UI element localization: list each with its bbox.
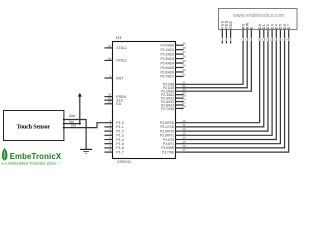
pin P1.3 (4) [104,131,123,137]
pin P1.4 (5) [104,136,123,142]
wire P3.7 to LCD D7 [184,30,289,153]
pin D3 (10) of LCD [269,24,274,42]
svg-text:31: 31 [108,100,112,104]
svg-text:13: 13 [282,38,285,42]
wire touch sensor Out to P1.0 [64,123,105,128]
pin P0.6/AD6 (33) [161,68,187,74]
pin ALE (30) [104,96,123,102]
svg-text:P3.7/RD: P3.7/RD [162,150,175,154]
svg-text:XTAL1: XTAL1 [116,46,127,50]
pin RS (4) of LCD [240,23,245,41]
pin P1.6 (7) [104,144,123,150]
pin P2.3/A11 (24) [161,91,186,97]
svg-text:VEE: VEE [229,21,233,30]
pin P0.7/AD7 (32) [161,73,187,79]
svg-text:RST: RST [116,76,124,80]
svg-text:35: 35 [182,59,186,63]
pin P1.0 (1) [104,119,123,125]
pin P0.2/AD2 (37) [161,50,187,56]
logo EmbeTronicX [0,144,80,167]
svg-text:www.embetronicx.com: www.embetronicx.com [233,13,284,19]
wire P3.3 to LCD D3 [184,30,273,136]
svg-text:Embedded Tutorials Zone: Embedded Tutorials Zone [9,161,57,165]
ground [80,149,92,153]
pin P3.5/T1 (15) [163,140,186,146]
wire P2.1 to LCD RW [184,30,248,88]
pin P3.0/RXD (10) [160,119,186,125]
svg-text:10: 10 [269,38,272,42]
svg-text:28: 28 [182,105,186,109]
svg-text:EmbeTronicX: EmbeTronicX [10,152,62,161]
pin P3.3/INT1 (13) [160,131,186,137]
pin P3.1/TXD (11) [160,123,185,129]
svg-text:Gnd: Gnd [69,114,75,118]
svg-text:P0.7/AD7: P0.7/AD7 [161,75,175,79]
pin PSEN (29) [104,93,126,99]
pin P1.2 (3) [104,127,123,133]
pin P1.1 (2) [104,123,123,129]
pin P3.7/RD (17) [162,148,186,154]
pin P2.6/A14 (27) [161,101,186,107]
pin P3.6/WR (16) [161,144,186,150]
logo leaf icon [2,148,7,160]
pin RW (5) of LCD [244,22,249,41]
wire P3.1 to LCD D1 [184,30,264,127]
pin P0.3/AD3 (36) [161,55,187,61]
LCD module LCD1 [219,9,298,30]
pin VSS (1) of LCD [220,21,225,44]
svg-text:E: E [250,26,254,29]
power VCC arrow [78,93,82,97]
pin P2.4/A12 (25) [161,94,186,100]
pin D2 (9) of LCD [265,24,270,42]
wire touch sensor Vcc to power [64,96,80,123]
wire P3.6 to LCD D6 [184,30,285,148]
pin Vcc of touch sensor [63,120,75,125]
wire P3.5 to LCD D5 [184,30,281,144]
pin VDD (2) of LCD [224,20,229,43]
pin XTAL2 (18) [104,57,127,63]
svg-text:P0.5/AD5: P0.5/AD5 [161,66,175,70]
svg-text:XTAL2: XTAL2 [116,59,127,63]
svg-text:14: 14 [286,38,289,42]
svg-text:33: 33 [182,68,186,72]
pin P3.2/INT0 (12) [160,127,186,133]
svg-text:P0.2/AD2: P0.2/AD2 [161,52,175,56]
svg-text:P1.7: P1.7 [116,150,123,154]
touch sensor module TS1 [4,111,64,141]
pin P0.1/AD1 (38) [161,46,187,52]
pin D0 (7) of LCD [257,24,262,42]
pin D4 (11) of LCD [273,24,278,42]
pin D6 (13) of LCD [282,24,287,42]
svg-text:36: 36 [182,55,186,59]
pin P0.4/AD4 (35) [161,59,187,65]
pin RST (9) [104,74,124,80]
pin P1.5 (6) [104,140,123,146]
pin Out of touch sensor [63,124,76,129]
pin Gnd of touch sensor [63,114,75,120]
pin P2.2/A10 (23) [161,87,186,93]
svg-text:P0.1/AD1: P0.1/AD1 [161,48,175,52]
svg-text:39: 39 [182,41,186,45]
logo dots [2,163,8,165]
pin D7 (14) of LCD [286,24,291,42]
junction Vcc [79,123,81,125]
logo tagline Embedded Tutorials Zone [8,161,62,165]
wire P3.4 to LCD D4 [184,30,277,140]
svg-text:D7: D7 [287,24,291,30]
pin E (6) of LCD [249,26,254,41]
svg-text:EA: EA [116,102,121,106]
wire P2.2 to LCD E [184,30,252,92]
wire P3.0 to LCD D0 [184,30,260,123]
svg-text:18: 18 [108,57,112,61]
pin P2.0/A8 (21) [163,80,186,86]
pin P3.4/T0 (14) [163,136,186,142]
pin D1 (8) of LCD [261,24,266,42]
pin P2.1/A9 (22) [163,84,186,90]
wire P2.0 to LCD RS [184,30,244,85]
svg-text:P0.0/AD0: P0.0/AD0 [161,44,175,48]
svg-text:P0.3/AD3: P0.3/AD3 [161,57,175,61]
svg-text:37: 37 [182,50,186,54]
svg-text:AT89C51: AT89C51 [117,160,131,164]
pin P0.5/AD5 (34) [161,64,187,70]
pin P1.7 (8) [104,148,123,154]
wire P3.2 to LCD D2 [184,30,268,132]
pin XTAL1 (19) [104,44,127,50]
svg-text:P2.7/A15: P2.7/A15 [161,107,174,111]
microcontroller U1 AT89C51 [113,42,176,159]
svg-text:19: 19 [108,44,112,48]
svg-text:32: 32 [182,73,186,77]
pin EA (31) [104,100,121,106]
svg-text:34: 34 [182,64,186,68]
svg-text:U1: U1 [116,35,122,40]
pin D5 (12) of LCD [278,24,283,42]
pin P2.7/A15 (28) [161,105,186,111]
pin VEE (3) of LCD [228,21,233,44]
pin P0.0/AD0 (39) [161,41,187,47]
svg-text:Touch Sensor: Touch Sensor [17,124,51,131]
svg-text:P0.4/AD4: P0.4/AD4 [161,61,175,65]
svg-text:38: 38 [182,46,186,50]
svg-text:12: 12 [278,38,281,42]
svg-text:P0.6/AD6: P0.6/AD6 [161,70,175,74]
wire touch sensor Gnd to ground [64,120,86,149]
pin P2.5/A13 (26) [161,98,186,104]
